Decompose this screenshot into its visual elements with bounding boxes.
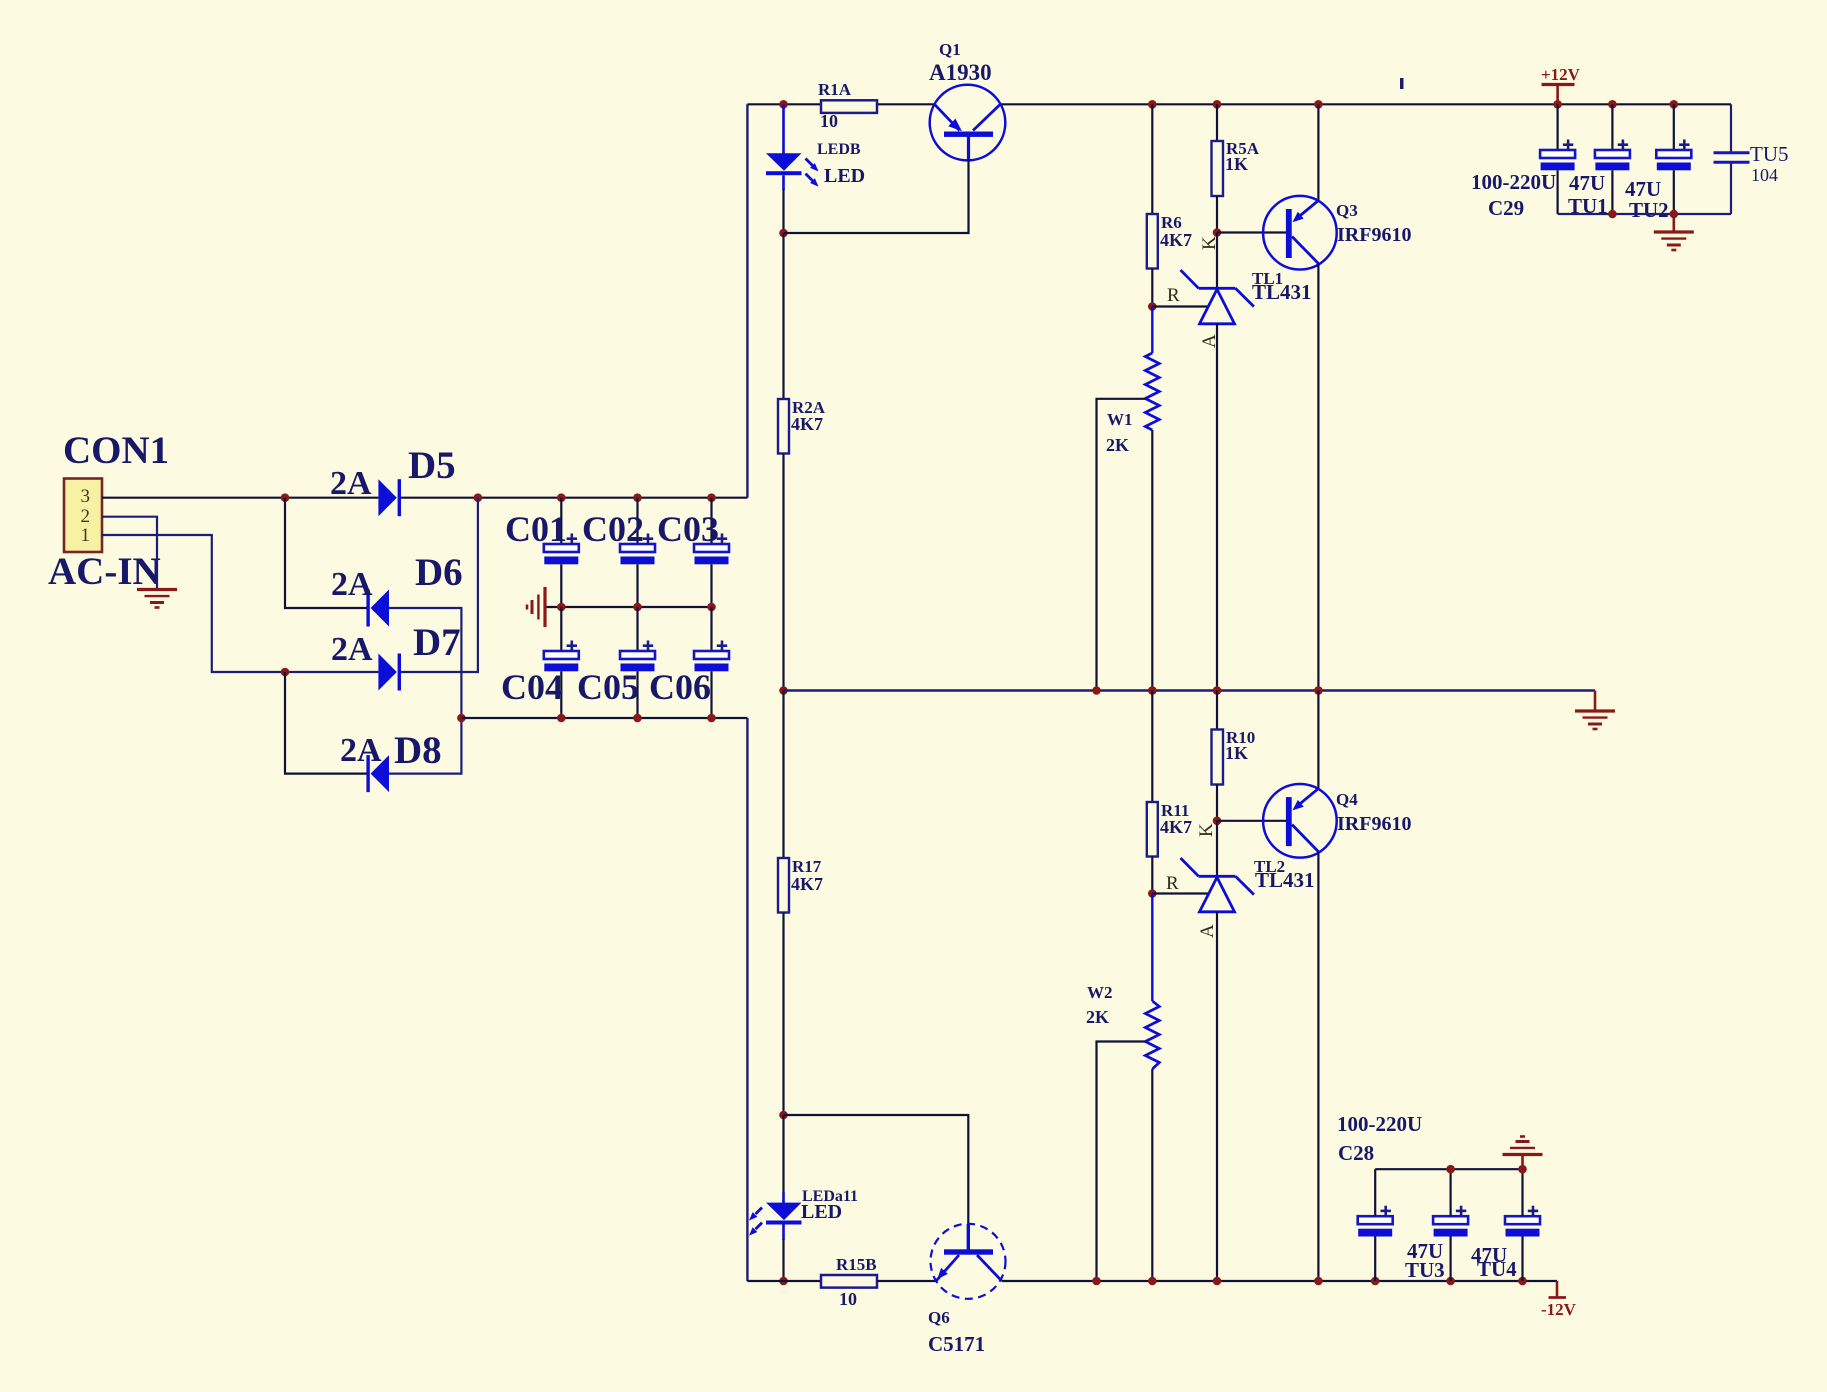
wire D6 anode down [389, 608, 461, 774]
wire W2 bottom lead [1151, 1069, 1153, 1281]
resistor R5A [1212, 141, 1224, 196]
wire R10 top lead [1216, 691, 1218, 730]
wire C03 bottom lead [710, 564, 712, 607]
transistor Q1 [930, 85, 1006, 161]
wire C04 bottom lead [560, 671, 562, 718]
wire TL1 K lead [1216, 233, 1218, 289]
node cap C01 top [557, 493, 566, 502]
capacitor C06 [694, 641, 729, 672]
svg-text:C06: C06 [649, 667, 711, 707]
svg-text:W1: W1 [1107, 410, 1133, 429]
node cap C02 top [633, 493, 642, 502]
wire Q3 gate lead [1217, 231, 1286, 233]
svg-text:2K: 2K [1106, 435, 1129, 455]
LEDa11 light arrow 1 [756, 1208, 763, 1215]
svg-text:A1930: A1930 [929, 60, 992, 85]
capacitor TU2 [1656, 140, 1691, 171]
wire C06 top lead [710, 607, 712, 651]
node bottom rail TU3 [1446, 1277, 1455, 1286]
wire TL1 R pin [1152, 305, 1209, 307]
wire W1 wiper [1097, 399, 1146, 691]
capacitor C04 [544, 641, 579, 672]
wire LEDB cathode lead [782, 189, 784, 233]
wire R6 bottom lead [1151, 269, 1153, 307]
svg-text:TL431: TL431 [1255, 868, 1315, 892]
wire bottom rail left [747, 1280, 821, 1282]
TL431 TL1 [1181, 270, 1254, 324]
wire R2A bottom lead [782, 454, 784, 691]
node top rail Q3 [1314, 100, 1323, 109]
wire LEDa11 cathode lead blue [782, 1225, 785, 1241]
wire pin2 [102, 517, 157, 590]
wire TL1 A lead [1216, 324, 1218, 691]
svg-text:A: A [1199, 334, 1220, 348]
wire negative cap rail [461, 717, 747, 719]
wire bottom rail right of Q6 [1002, 1280, 1557, 1282]
wire Q3 drain lead [1317, 264, 1319, 691]
wire TU5 loop [1730, 104, 1732, 152]
svg-text:C29: C29 [1488, 196, 1524, 220]
transistor Q4 [1263, 784, 1337, 858]
net tick I [1400, 78, 1404, 89]
svg-text:R: R [1166, 873, 1179, 894]
capacitor C28 [1358, 1206, 1393, 1237]
node TL2 A bottom [1213, 1277, 1222, 1286]
svg-text:C5171: C5171 [928, 1332, 985, 1356]
svg-text:TU3: TU3 [1405, 1258, 1445, 1282]
svg-text:Q4: Q4 [1336, 790, 1358, 809]
svg-text:100-220U: 100-220U [1337, 1112, 1422, 1136]
wire LEDa11 cathode lead [782, 1239, 784, 1281]
wire W2 top lead [1151, 894, 1153, 1002]
connector CON1 body [64, 479, 102, 553]
wire Q1 collector blue [967, 137, 970, 161]
svg-text:C03: C03 [657, 509, 719, 549]
svg-text:2A: 2A [340, 732, 382, 769]
diode D7 [378, 654, 401, 691]
node W1 wiper ground [1092, 686, 1101, 695]
wire W1 top lead [1151, 307, 1153, 354]
LEDa11 light arrow 2 [756, 1223, 763, 1230]
wire mid ground rail [546, 606, 712, 608]
svg-text:4K7: 4K7 [791, 414, 823, 434]
svg-text:W2: W2 [1087, 983, 1113, 1002]
wire Q4 drain lead [1317, 852, 1319, 1281]
svg-text:D6: D6 [415, 551, 463, 594]
wire Q4 source lead [1317, 691, 1319, 789]
TL431 TL2 [1181, 858, 1254, 912]
resistor R6 [1147, 214, 1158, 269]
wire TU2 bottom lead [1673, 170, 1675, 214]
wire C02 top lead [636, 498, 638, 544]
node Q3 drain ground [1314, 686, 1323, 695]
node ground rail Q4 [1314, 686, 1323, 695]
potentiometer W2 [1145, 1001, 1159, 1069]
wire R6 top lead [1151, 104, 1153, 214]
node ground rail left end [779, 686, 788, 695]
svg-text:2A: 2A [331, 566, 373, 603]
resistor R17 [778, 858, 789, 913]
svg-text:10: 10 [820, 111, 838, 131]
wire C29 bottom lead [1556, 170, 1558, 214]
svg-text:K: K [1196, 823, 1217, 837]
svg-text:Q6: Q6 [928, 1308, 950, 1327]
node TU2 top [1670, 100, 1679, 109]
svg-text:LEDB: LEDB [817, 141, 861, 158]
wire R11 bottom lead [1151, 857, 1153, 894]
node TL1 A ground [1213, 686, 1222, 695]
wire D5 cathode rail [401, 497, 748, 499]
svg-text:D5: D5 [408, 444, 456, 487]
svg-text:C05: C05 [577, 667, 639, 707]
node bottom rail C28 [1371, 1277, 1380, 1286]
svg-text:47U: 47U [1569, 171, 1605, 195]
wire TL2 R pin [1152, 892, 1209, 894]
svg-text:104: 104 [1751, 165, 1778, 185]
wire R2A top lead [782, 233, 784, 399]
wire TL2 K lead [1216, 821, 1218, 877]
node W2 wiper bottom [1092, 1277, 1101, 1286]
diode D8 [366, 755, 389, 792]
svg-text:IRF9610: IRF9610 [1337, 813, 1411, 835]
wire TU4 bottom lead [1521, 1237, 1523, 1282]
wire LEDa11 anode lead [782, 1115, 784, 1193]
svg-text:R1A: R1A [818, 80, 852, 99]
svg-text:3: 3 [81, 486, 91, 507]
svg-text:-12V: -12V [1541, 1300, 1577, 1319]
wire branch down to D8 [285, 672, 367, 774]
node TU1 top [1608, 100, 1617, 109]
wire R5A top lead [1216, 104, 1218, 141]
svg-text:+12V: +12V [1541, 65, 1581, 84]
node ground rail R11 [1148, 686, 1157, 695]
diode D6 [366, 590, 389, 627]
resistor R11 [1147, 802, 1158, 857]
wire branch down to D6 [285, 498, 367, 608]
svg-text:LED: LED [801, 1201, 842, 1223]
svg-text:C04: C04 [501, 667, 563, 707]
wire TU1 bottom lead [1611, 170, 1613, 214]
svg-text:R: R [1167, 285, 1180, 306]
capacitor C05 [620, 641, 655, 672]
wire top rail right [1000, 103, 1731, 105]
svg-text:100-220U: 100-220U [1471, 170, 1556, 194]
ground AC-IN [137, 590, 177, 608]
wire LEDa11 anode lead blue [782, 1192, 785, 1203]
node C04 bottom [557, 714, 566, 723]
diode D5 [378, 479, 401, 516]
ground inverted above TU4 [1521, 1155, 1524, 1170]
LED LEDa11 [766, 1203, 802, 1221]
svg-text:TU2: TU2 [1629, 198, 1669, 222]
wire C04 top lead [560, 607, 562, 651]
wire C01 leads [560, 498, 562, 544]
wire Q1 collector [784, 159, 969, 233]
wire pin1 to D7 anode [102, 535, 378, 672]
wire TU4 top lead [1521, 1169, 1523, 1216]
wire TU3 bottom lead [1449, 1237, 1451, 1282]
capacitor TU5 [1714, 151, 1750, 154]
wire TU1 top lead [1611, 104, 1613, 150]
resistor R10 [1212, 730, 1224, 785]
svg-text:C28: C28 [1338, 1141, 1374, 1165]
node TL1 K pin [1213, 228, 1222, 237]
wire R5A bottom lead [1216, 196, 1218, 233]
svg-text:2A: 2A [331, 631, 373, 668]
wire W2 wiper [1097, 1042, 1146, 1282]
capacitor TU3 [1433, 1206, 1468, 1237]
node C29 top [1553, 100, 1562, 109]
node TL2 K pin [1213, 817, 1222, 826]
wire TU2 top lead [1673, 104, 1675, 150]
node TU1 bottom [1608, 210, 1617, 219]
wire R11 top lead [1151, 691, 1153, 803]
LEDB light arrow 2 [806, 174, 814, 182]
wire LEDB anode lead [782, 104, 785, 153]
svg-text:1: 1 [81, 525, 91, 546]
wire lower cap top rail [1375, 1168, 1522, 1170]
LED LEDB [766, 153, 802, 171]
wire D7 cathode up [401, 498, 478, 672]
resistor R2A [778, 399, 789, 454]
node C05 bottom [633, 714, 642, 723]
wire raw positive riser [746, 104, 748, 497]
node mid C02 [633, 603, 642, 612]
svg-text:1K: 1K [1225, 154, 1248, 174]
wire C01 bottom lead [560, 564, 562, 607]
node mid C03 [707, 603, 716, 612]
wire W1 bottom lead [1151, 430, 1153, 691]
node ground rail R10 [1213, 686, 1222, 695]
node mid C01 [557, 603, 566, 612]
potentiometer W1 [1145, 353, 1159, 430]
node top rail R5A [1213, 100, 1222, 109]
svg-text:D7: D7 [413, 621, 461, 664]
transistor Q6 [931, 1224, 1006, 1299]
wire TU5 bottom lead [1730, 162, 1732, 214]
power -12V symbol [1556, 1281, 1559, 1298]
wire Q3 source lead [1317, 104, 1319, 200]
resistor R15B [821, 1275, 877, 1288]
capacitor TU4 [1505, 1206, 1540, 1237]
node Q1 collector join [779, 229, 788, 238]
svg-text:Q3: Q3 [1336, 201, 1358, 220]
wire C28 top lead [1374, 1169, 1376, 1216]
node pin1 branch [281, 668, 290, 677]
wire pin3 to D5 anode [102, 497, 378, 499]
svg-text:2: 2 [81, 506, 91, 527]
svg-text:4K7: 4K7 [791, 874, 823, 894]
node cap C03 top [707, 493, 716, 502]
wire R15B to Q6 [877, 1280, 936, 1282]
wire top cap bottom rail [1558, 213, 1731, 215]
svg-text:R15B: R15B [836, 1255, 877, 1274]
wire C06 bottom lead [710, 671, 712, 718]
wire C29 top lead [1556, 104, 1558, 150]
resistor R1A [821, 100, 877, 113]
wire top rail left [747, 103, 934, 105]
ground mid caps [527, 587, 545, 627]
ground TU2 [1673, 214, 1676, 232]
node W2 bottom [1148, 1277, 1157, 1286]
wire R17 top lead [782, 691, 784, 859]
svg-text:A: A [1197, 924, 1218, 938]
wire C02 bottom lead [636, 564, 638, 607]
svg-text:C01: C01 [505, 509, 567, 549]
node TL2 R pin [1148, 889, 1157, 898]
node Q4 drain bottom [1314, 1277, 1323, 1286]
LEDB light arrow 1 [806, 159, 814, 167]
node LEDB top [779, 100, 788, 109]
wire C05 top lead [636, 607, 638, 651]
wire TL2 A lead [1216, 912, 1218, 1281]
svg-text:2K: 2K [1086, 1007, 1109, 1027]
capacitor TU1 [1595, 140, 1630, 171]
node top rail R6 [1148, 100, 1157, 109]
wire LEDB cathode lead blue [782, 175, 785, 190]
svg-text:2A: 2A [330, 465, 372, 502]
node TU3 top [1446, 1165, 1455, 1174]
capacitor C01 [544, 534, 579, 565]
wire Q6 collector [784, 1115, 969, 1250]
wire C28 bottom lead [1374, 1237, 1376, 1282]
svg-text:Q1: Q1 [939, 40, 961, 59]
svg-text:K: K [1199, 236, 1220, 250]
node W1 ground [1148, 686, 1157, 695]
wire ground rail [784, 689, 1596, 691]
svg-text:1K: 1K [1225, 743, 1248, 763]
svg-text:TU5: TU5 [1750, 142, 1789, 166]
svg-text:IRF9610: IRF9610 [1337, 224, 1411, 246]
wire R17 bottom lead [782, 913, 784, 1116]
capacitor C03 [694, 534, 729, 565]
node LEDa11 bottom [779, 1277, 788, 1286]
node D5-D7 join [474, 493, 483, 502]
svg-text:C02: C02 [582, 509, 644, 549]
svg-text:D8: D8 [394, 729, 442, 772]
node TL1 R pin [1148, 302, 1157, 311]
svg-text:CON1: CON1 [63, 429, 169, 472]
capacitor C29 [1540, 140, 1575, 171]
node TU2 bottom [1670, 210, 1679, 219]
wire C05 bottom lead [636, 671, 638, 718]
svg-text:TL431: TL431 [1252, 280, 1312, 304]
svg-text:4K7: 4K7 [1160, 230, 1192, 250]
svg-text:TU4: TU4 [1477, 1257, 1517, 1281]
node D6-D8 join [457, 714, 466, 723]
node pin3 branch [281, 493, 290, 502]
node C06 bottom [707, 714, 716, 723]
capacitor C02 [620, 534, 655, 565]
node TU4 top [1518, 1165, 1527, 1174]
ground right end symbol [1594, 691, 1597, 712]
transistor Q3 [1263, 196, 1337, 270]
wire raw negative dropper [746, 718, 748, 1281]
svg-text:4K7: 4K7 [1160, 817, 1192, 837]
power +12V symbol [1556, 85, 1559, 105]
svg-text:LED: LED [824, 165, 865, 187]
svg-text:10: 10 [839, 1289, 857, 1309]
wire R10 bottom lead [1216, 785, 1218, 821]
wire C03 top lead [710, 498, 712, 544]
wire TU3 top lead [1449, 1169, 1451, 1216]
svg-text:AC-IN: AC-IN [48, 550, 161, 593]
wire Q4 gate lead [1217, 820, 1286, 822]
node Q6 collector join [779, 1111, 788, 1120]
node bottom rail TU4 [1518, 1277, 1527, 1286]
